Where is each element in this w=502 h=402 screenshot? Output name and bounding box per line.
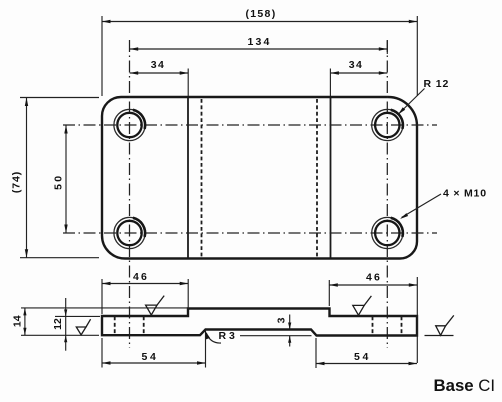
label R 12 corner radius with leader: [398, 78, 449, 115]
dimension 54 right foot (front view): [316, 338, 417, 368]
vertical centerline left holes: [129, 40, 131, 348]
title Base CI: [434, 376, 496, 395]
dimension 134 hole spacing: [130, 36, 388, 54]
profile outline (front view): [102, 309, 417, 336]
dimension (158) overall width: [102, 8, 417, 96]
svg-text:46: 46: [366, 272, 382, 284]
svg-text:12: 12: [52, 318, 64, 330]
dimension 34 right: [330, 59, 387, 96]
dimension 14 overall height (front view): [12, 308, 189, 335]
svg-text:54: 54: [142, 351, 159, 363]
surface finish symbol on left pad: [146, 296, 165, 315]
svg-text:R 12: R 12: [424, 78, 450, 90]
svg-text:R 3: R 3: [219, 330, 236, 342]
dimension 46 right pad (front view): [329, 272, 417, 364]
dimension 34 left: [130, 59, 189, 96]
label R 3 fillet with leader: [205, 330, 235, 343]
svg-text:3: 3: [276, 317, 288, 323]
dimension 46 left pad (front view): [102, 271, 188, 314]
vertical centerline right holes: [386, 40, 388, 348]
svg-text:54: 54: [354, 351, 371, 363]
svg-text:Base CI: Base CI: [434, 376, 496, 395]
dimension (74) overall depth: [11, 98, 100, 258]
svg-text:46: 46: [133, 271, 149, 283]
tapped hole bottom-right M10: [372, 217, 403, 248]
horizontal centerline lower holes: [63, 232, 437, 234]
horizontal centerline upper holes: [63, 124, 437, 126]
svg-text:(74): (74): [11, 171, 23, 193]
tapped hole top-left M10: [114, 109, 145, 140]
tapped hole bottom-left M10: [114, 217, 145, 248]
dimension 54 left foot (front view): [102, 331, 206, 368]
hidden tapped hole lines left (front view): [115, 317, 144, 335]
surface finish symbol on right pad: [353, 296, 372, 315]
svg-text:(158): (158): [245, 8, 276, 20]
svg-text:4 × M10: 4 × M10: [443, 188, 487, 200]
svg-text:34: 34: [151, 59, 165, 71]
hidden relief edge left (top view): [201, 99, 203, 257]
svg-text:34: 34: [349, 59, 363, 71]
label 4 x M10 tapped holes with leader: [400, 188, 487, 220]
general surface finish symbol right: [425, 315, 454, 335]
svg-text:134: 134: [247, 36, 271, 48]
dimension 12 end height (front view): [52, 298, 100, 351]
surface finish symbol on bottom face: [76, 319, 90, 335]
hidden tapped hole lines right (front view): [373, 317, 402, 336]
dimension 3 relief depth (front view): [240, 315, 312, 347]
step edge line right (top view): [330, 98, 332, 258]
svg-text:14: 14: [12, 315, 24, 327]
hidden relief edge right (top view): [316, 99, 318, 257]
dimension 50 hole spacing vertical: [52, 125, 67, 233]
svg-text:50: 50: [52, 174, 64, 190]
plate outline (top view): [102, 97, 417, 259]
step edge line left (top view): [187, 98, 189, 258]
tapped hole top-right M10: [372, 109, 403, 140]
